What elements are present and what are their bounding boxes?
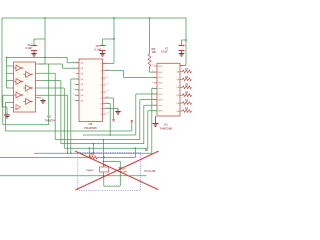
pins U3 right [36,63,39,65]
wire VCC drop to C5 and U3 [34,18,45,64]
relay K1 coil box [100,167,109,172]
svg-text:0.1uF: 0.1uF [25,46,32,50]
resistor R3 [180,86,183,88]
svg-text:74HC04: 74HC04 [45,119,56,123]
wire line1 y123 to over-top [3,64,49,125]
wire branch down to subcircuit [102,140,104,158]
wire subcircuit top [103,157,120,167]
wire right VCC drop to U1 pin16 and C7 [180,18,186,65]
inverter gates inside U3 [14,65,24,71]
svg-text:0.1uF: 0.1uF [161,50,168,54]
svg-text:QA: QA [80,72,84,75]
svg-text:Q: Q [100,70,102,72]
svg-text:10k: 10k [152,50,157,54]
wire left VCC drop [2,18,7,113]
svg-text:Q: Q [100,103,102,105]
resistor R5 [180,102,183,104]
svg-text:Q: Q [100,98,102,100]
wire net y157 left [0,156,89,158]
wire U2 QH to U1 SER [106,71,158,78]
svg-text:QA: QA [80,78,84,81]
svg-text:Pri=11 9R: Pri=11 9R [145,170,156,173]
svg-text:74HC595: 74HC595 [84,126,97,130]
wire U2 row98 down [106,98,114,120]
resistor R8 10k [148,54,151,67]
wire net y153 left stub [34,152,71,154]
node junction C [149,17,151,19]
ground at U3 right pin [39,97,42,99]
inverter gate 7 inside U3 [16,105,21,110]
wire input bus left of U3 [6,57,8,88]
capacitor C5 0.1uF [31,45,37,47]
svg-text:SER: SER [158,111,163,113]
wire U2 stubs left [75,84,79,100]
svg-text:SER: SER [158,105,163,107]
wire line2b y135 to U1 [83,94,157,135]
svg-text:SER: SER [158,83,163,85]
wire net y157 right [97,148,135,157]
svg-text:QA: QA [80,83,84,86]
wire U3 row95 drop to net153 [39,95,68,153]
ic U1 74HC595 body [157,63,180,116]
cross-out X line 1 [76,151,159,189]
ground left of U3 [6,113,8,115]
wire VCC drop to U2 pin16 [103,18,115,63]
node junction B [113,17,115,19]
no-connect marker line2 [131,120,133,122]
svg-text:QA: QA [176,78,180,81]
pin U1 vcc right [180,64,183,66]
wire branch down to net153 [93,144,95,154]
resistor R2 [180,78,183,80]
svg-text:Q: Q [100,85,102,87]
resistor R1 [180,71,183,73]
resistor R9 in net157 [89,156,97,159]
pins U1 left [154,65,157,67]
svg-text:SER: SER [158,77,163,79]
svg-text:GND: GND [15,108,20,110]
wire route U3 row88 to U1 row110 [39,88,158,148]
wire route U3 row73 to U1 row99 [39,73,158,139]
wire net y176 [0,175,147,177]
svg-text:Q: Q [100,92,102,94]
wire route U3 row80 to U1 row105 [39,81,158,144]
wire over-top net1 [7,57,80,62]
ground at U1 bottom [155,116,157,122]
svg-text:QA: QA [80,67,84,70]
ground at U2 bottom right [106,109,119,110]
svg-text:SER: SER [158,99,163,101]
wire branch down to R9 [88,148,90,157]
svg-text:QA: QA [80,62,84,65]
node junction A [44,17,46,19]
wire U2 row103 down [106,104,111,136]
wire VCC drop to R8 [149,18,151,54]
diode D1 [119,167,122,171]
svg-text:QA: QA [176,110,180,113]
wire R8 to U1 pin [150,67,158,73]
svg-text:SER: SER [158,94,163,96]
ic U2 74HC595 body [79,59,103,122]
selection box dashed [78,152,141,190]
wire coil to net176 [102,172,104,176]
svg-text:1N4007: 1N4007 [86,169,94,172]
svg-text:QA: QA [80,94,84,97]
pins U2 right [103,62,106,64]
capacitor C6 0.1uF [100,45,106,47]
svg-text:Q: Q [100,114,102,116]
resistor R6 [180,110,183,112]
wire over-top net2 [39,64,80,68]
resistor R4 [180,94,183,96]
no-connect marker near elbow [145,149,147,151]
svg-text:QA: QA [176,70,180,73]
svg-text:Q: Q [100,78,102,80]
pins U3 left [11,65,14,67]
ic U3 74HC04 body [14,62,36,112]
svg-text:0.1uF: 0.1uF [94,47,101,51]
svg-text:SER: SER [158,66,163,68]
wire VCC top rail [2,17,186,19]
no-connect marker U2 row98 [112,119,114,121]
wire diode down loop [104,172,121,187]
wire line2 y131 [6,103,132,131]
svg-text:QA: QA [176,94,180,97]
svg-text:QA: QA [176,102,180,105]
svg-text:SER: SER [158,88,163,90]
svg-text:QA: QA [80,99,84,102]
svg-text:Q: Q [100,108,102,110]
cross-out X line 2 [76,151,158,190]
svg-text:QA: QA [80,89,84,92]
pins U2 left [76,62,79,64]
svg-text:74HC595: 74HC595 [160,127,173,131]
svg-text:Q: Q [100,63,102,65]
wire route U2 row79 to U1 row88 [71,79,157,153]
svg-text:QA: QA [176,86,180,89]
svg-text:SER: SER [158,72,163,74]
capacitor C7 0.1uF [179,45,185,47]
